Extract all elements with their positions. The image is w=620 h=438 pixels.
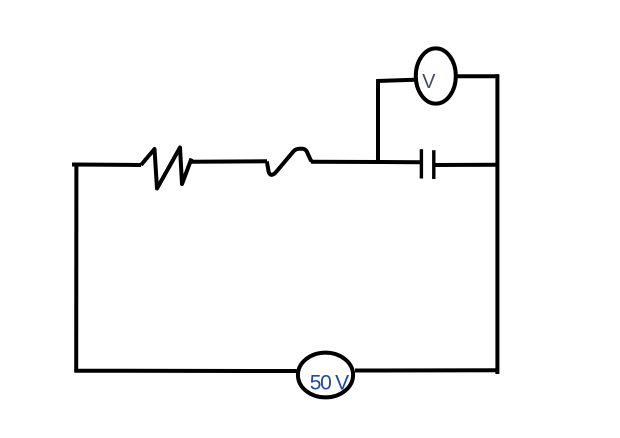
wire right vertical	[495, 74, 499, 374]
voltmeter U1	[416, 48, 456, 103]
wire bottom-right horizontal	[355, 368, 499, 372]
svg-text:50 V: 50 V	[310, 372, 349, 395]
wire voltmeter left vertical	[376, 81, 380, 163]
inductor L1 (squiggle)	[267, 149, 312, 175]
wire capacitor to right vertical	[435, 163, 498, 167]
wire bottom-left horizontal	[74, 369, 296, 373]
capacitor C1 left plate	[420, 149, 423, 178]
wire inductor to capacitor	[311, 160, 420, 164]
wire left vertical	[74, 163, 78, 372]
svg-text:V: V	[422, 71, 436, 93]
wire top-left horizontal	[72, 163, 141, 168]
wire voltmeter top-left horizontal	[376, 80, 414, 81]
resistor R1	[141, 148, 192, 189]
wire voltmeter top-right horizontal	[458, 74, 500, 78]
wire resistor to inductor	[192, 159, 268, 164]
battery source 50V	[298, 353, 353, 398]
capacitor C1 right plate	[432, 150, 435, 179]
